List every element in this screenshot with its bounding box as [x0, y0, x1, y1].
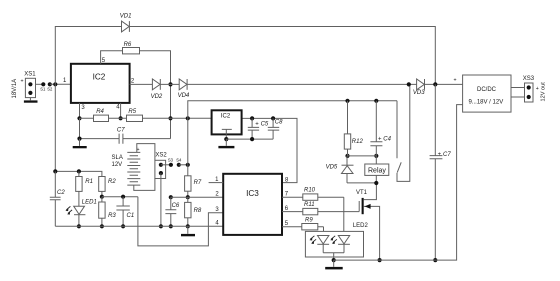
ground bus bottom left: [55, 225, 223, 227]
svg-text:12V out: 12V out: [541, 82, 547, 102]
wire VD1 to VD3 node: [129, 27, 435, 85]
svg-text:DC/DC: DC/DC: [477, 87, 497, 93]
wire XS2 pin1 to pad S3: [161, 164, 171, 166]
LED LED1: [65, 199, 96, 226]
svg-text:R12: R12: [352, 139, 364, 145]
svg-text:S4: S4: [176, 157, 182, 162]
wire battery riser: [188, 101, 397, 165]
wire regulated rail y118: [171, 118, 298, 182]
diode VD5: [326, 156, 354, 183]
resistor R6: [123, 42, 140, 54]
svg-text:R7: R7: [194, 180, 202, 186]
relay contact switch: [397, 84, 410, 181]
connector XS3: [523, 76, 547, 102]
capacitor C8: [268, 116, 283, 139]
resistor R8: [185, 197, 202, 226]
svg-text:R9: R9: [305, 218, 313, 224]
svg-text:VD4: VD4: [178, 93, 190, 99]
node R3 gnd: [100, 224, 104, 228]
svg-text:IC2: IC2: [221, 114, 231, 120]
svg-text:+: +: [536, 86, 539, 92]
svg-text:LED2: LED2: [353, 223, 369, 229]
capacitor C1: [116, 195, 134, 229]
resistor R2: [99, 177, 117, 197]
svg-text:9...18V / 12V: 9...18V / 12V: [469, 100, 504, 106]
svg-text:R11: R11: [304, 202, 315, 208]
svg-text:R4: R4: [96, 109, 104, 115]
svg-text:Relay: Relay: [368, 167, 386, 174]
svg-text:R2: R2: [108, 179, 116, 185]
node LED2 gnd: [332, 258, 336, 262]
svg-text:VD3: VD3: [413, 90, 425, 96]
wire XS1 to pad S1: [36, 83, 44, 85]
svg-text:+: +: [438, 152, 442, 158]
resistor R10: [282, 187, 344, 200]
resistor R11: [282, 202, 359, 215]
node R12 rail: [345, 99, 349, 103]
svg-text:C2: C2: [57, 190, 65, 196]
wire cap bottom rail: [226, 138, 273, 140]
svg-text:R3: R3: [108, 213, 116, 219]
wire IC2 bottom pin: [225, 134, 227, 139]
svg-text:18V/1A: 18V/1A: [12, 79, 18, 99]
svg-text:C6: C6: [172, 203, 180, 209]
transistor VT1: [356, 183, 380, 260]
regulator U2 small IC2: [212, 110, 242, 134]
node XS2 gnd: [159, 224, 163, 228]
diode VD1: [120, 14, 132, 32]
ground (small IC2): [218, 139, 234, 148]
ground bus bottom right: [334, 105, 463, 261]
svg-text:LED1: LED1: [82, 199, 97, 205]
node VD3 cathode: [433, 82, 437, 86]
connector XS2: [155, 152, 168, 178]
wire VD5 anode to coil bottom: [347, 182, 376, 184]
LED module LED2: [305, 223, 368, 260]
svg-text:IC3: IC3: [246, 189, 259, 198]
wire VD4 to VD3: [187, 83, 417, 85]
svg-text:S1: S1: [40, 87, 46, 92]
svg-text:C8: C8: [275, 120, 283, 126]
svg-text:C7: C7: [117, 127, 125, 133]
node coil bottom: [374, 181, 378, 185]
wire IC2 pin4: [120, 103, 122, 118]
svg-text:XS2: XS2: [155, 152, 167, 158]
resistor R5: [121, 109, 171, 122]
node input junction: [53, 82, 57, 86]
node S4: [176, 157, 182, 167]
svg-text:C4: C4: [383, 136, 391, 142]
capacitor C5: [248, 116, 269, 141]
node R2/R3: [100, 195, 104, 199]
svg-text:VD1: VD1: [120, 14, 132, 20]
IC3 comparator: [223, 174, 282, 235]
wire R9 to LED2a: [323, 227, 325, 236]
node C7 left: [77, 137, 81, 141]
svg-text:VD5: VD5: [326, 165, 338, 171]
wire VD2 to VD4: [160, 83, 179, 85]
wire C6 to IC3 pin2: [171, 196, 223, 198]
wire top-left riser: [55, 27, 121, 85]
wire battery minus to XS2: [134, 179, 155, 191]
wire DC/DC outputs: [511, 88, 525, 98]
node B (R5 right): [168, 116, 172, 120]
node C7 gnd: [433, 258, 437, 262]
capacitor C7: [80, 118, 171, 143]
op-amp U1 regulator IC2: [71, 64, 130, 103]
node pin4: [119, 116, 123, 120]
battery SLA 12V: [112, 147, 141, 185]
capacitor C7 output: [430, 84, 452, 260]
resistor R12: [344, 101, 363, 156]
svg-text:XS3: XS3: [523, 76, 535, 82]
svg-text:R1: R1: [85, 179, 93, 185]
svg-text:S2: S2: [47, 87, 53, 92]
relay K1: [365, 156, 389, 183]
DC/DC converter module: [454, 75, 512, 112]
pin 1 stub: [209, 177, 224, 183]
node coil top: [345, 154, 349, 158]
resistor R3: [99, 197, 117, 227]
ground (XS1): [24, 98, 38, 103]
capacitor C6: [165, 195, 180, 228]
wire coil top: [348, 155, 377, 157]
diode VD4: [178, 79, 190, 99]
wire battery plus to XS2: [137, 144, 155, 161]
ground (C7): [73, 139, 87, 149]
svg-text:SLA: SLA: [112, 155, 123, 161]
svg-text:12V: 12V: [112, 162, 123, 168]
pin 5 wire: [101, 51, 123, 64]
diode VD2: [151, 79, 163, 100]
svg-text:+: +: [21, 79, 24, 85]
svg-text:+: +: [454, 78, 457, 84]
node coil top right: [374, 154, 378, 158]
svg-text:R5: R5: [128, 109, 136, 115]
wire tap detour to IC3 pin3: [138, 197, 223, 246]
resistor R7: [185, 165, 202, 197]
wire S4 to battery net: [179, 164, 188, 166]
resistor R1: [76, 171, 93, 206]
wire left rail y171: [55, 84, 102, 176]
node IC2 gnd: [224, 137, 228, 141]
node A (VD2/VD4 junction): [168, 82, 172, 86]
node R1 top: [77, 169, 81, 173]
resistor R4: [80, 109, 121, 121]
capacitor C4: [370, 101, 391, 156]
node S3: [168, 157, 174, 167]
svg-text:XS1: XS1: [24, 71, 36, 77]
wire IC2 pin3: [79, 103, 81, 118]
node battery riser on rail: [186, 116, 190, 120]
node R7/R8: [186, 195, 190, 199]
connector XS1: [12, 71, 36, 98]
ground (LED2): [325, 260, 343, 269]
node S2: [47, 82, 53, 91]
node battery net: [186, 163, 190, 167]
diode VD3: [413, 79, 463, 96]
svg-text:VT1: VT1: [356, 190, 368, 196]
svg-text:R8: R8: [194, 208, 202, 214]
wire XS2 pin2 down: [160, 173, 162, 226]
node R8 gnd: [186, 224, 190, 228]
node C4 rail: [374, 99, 378, 103]
svg-text:C5: C5: [261, 122, 269, 128]
svg-text:C7: C7: [443, 152, 451, 158]
svg-text:R10: R10: [304, 187, 316, 193]
ground (R8): [181, 226, 195, 236]
wire R10 to LED2b: [343, 197, 345, 235]
wire IC2 pin2 to VD2: [130, 83, 153, 85]
node VD3 anode: [407, 82, 411, 86]
svg-text:VD2: VD2: [151, 94, 163, 100]
node pin3: [77, 116, 81, 120]
node VT1 source gnd: [378, 258, 382, 262]
wire R6 to node A: [140, 51, 171, 139]
wire S2 to IC2 pin1: [50, 83, 71, 85]
resistor R9: [282, 218, 324, 230]
svg-text:C1: C1: [127, 213, 135, 219]
wire divider tap: [102, 196, 138, 198]
capacitor C2: [50, 171, 66, 226]
node C2 top: [53, 169, 57, 173]
node LED1 gnd: [77, 224, 81, 228]
svg-text:IC2: IC2: [93, 72, 106, 81]
svg-text:+: +: [255, 122, 259, 128]
node S1: [40, 82, 46, 91]
svg-text:S3: S3: [168, 157, 174, 162]
